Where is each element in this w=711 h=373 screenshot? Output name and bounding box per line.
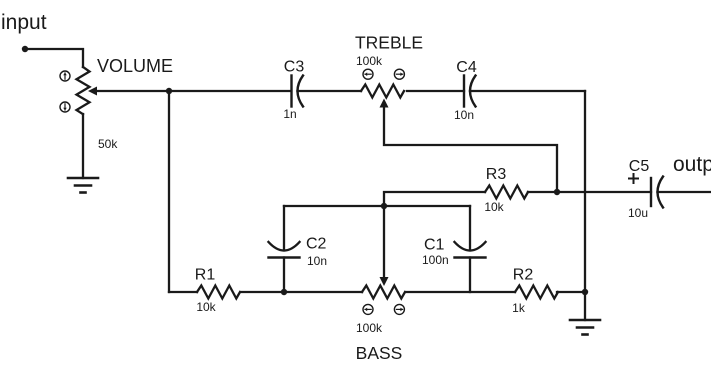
wire junction A to C3 bbox=[169, 90, 291, 92]
volume ccw rotation symbol (circled down arrow) bbox=[60, 102, 70, 112]
wire C2 top to C1 top through node C bbox=[284, 205, 470, 207]
svg-text:1k: 1k bbox=[512, 301, 526, 315]
wire treble wiper down and right to output node bbox=[384, 107, 557, 192]
svg-text:BASS: BASS bbox=[356, 343, 403, 363]
wire R1 to node D bbox=[241, 291, 284, 293]
capacitor C5 bbox=[651, 177, 663, 208]
svg-text:R3: R3 bbox=[486, 166, 507, 183]
bass ccw rotation symbol (circled left arrow) bbox=[363, 304, 373, 314]
ground (output side) bbox=[570, 320, 600, 335]
treble cw rotation symbol (circled right arrow) bbox=[394, 69, 404, 79]
wire C5 to output bbox=[658, 191, 711, 193]
wire treble pot to C4 bbox=[407, 90, 464, 92]
capacitor C3 bbox=[292, 76, 304, 107]
svg-text:input: input bbox=[1, 11, 47, 34]
node D: R1 / C2 junction dot bbox=[281, 289, 287, 295]
svg-text:50k: 50k bbox=[98, 137, 118, 151]
svg-text:VOLUME: VOLUME bbox=[97, 56, 173, 76]
volume cw rotation symbol (circled up arrow) bbox=[60, 71, 70, 81]
capacitor C1 bbox=[455, 242, 486, 258]
svg-text:C5: C5 bbox=[629, 158, 650, 175]
node A: volume wiper / C3 junction dot bbox=[166, 88, 172, 94]
wire R3 left lead bbox=[384, 192, 485, 206]
volume wiper arrow bbox=[88, 87, 97, 96]
treble ccw rotation symbol (circled left arrow) bbox=[363, 69, 373, 79]
svg-text:100k: 100k bbox=[356, 54, 383, 68]
svg-text:C3: C3 bbox=[284, 59, 305, 76]
wire C2 bottom lead bbox=[283, 258, 285, 293]
svg-text:10k: 10k bbox=[196, 300, 216, 314]
svg-text:C4: C4 bbox=[456, 59, 477, 76]
ground (volume) bbox=[68, 178, 98, 193]
capacitor C2 bbox=[269, 242, 300, 258]
capacitor C4 bbox=[464, 76, 476, 107]
treble wiper arrow bbox=[380, 99, 389, 108]
wire right vertical C4 to R2/ground (crosses output wire) bbox=[584, 91, 586, 292]
wire bass pot to R2 bbox=[406, 291, 515, 293]
potentiometer TREBLE 100k (horizontal zigzag) bbox=[361, 85, 404, 98]
wire input dot to corner bbox=[25, 49, 83, 67]
bass wiper arrow bbox=[380, 277, 389, 286]
wire C1 top lead bbox=[469, 206, 471, 250]
svg-text:C2: C2 bbox=[306, 236, 327, 253]
svg-text:10u: 10u bbox=[628, 206, 648, 220]
node B: R3 / treble wiper junction dot bbox=[554, 189, 560, 195]
resistor R1 bbox=[197, 286, 240, 299]
wire C4 to right vertical bbox=[470, 90, 585, 92]
wire node E to ground bbox=[584, 292, 586, 320]
wire bass wiper from node C down bbox=[383, 206, 385, 278]
potentiometer VOLUME 50k (vertical zigzag) bbox=[77, 67, 90, 114]
wire C1 bottom lead bbox=[469, 258, 471, 293]
svg-text:100k: 100k bbox=[356, 321, 383, 335]
node input: terminal dot bbox=[22, 46, 28, 52]
wire volume pot bottom to ground bbox=[82, 114, 84, 178]
wire bottom row left corner to R1 bbox=[169, 291, 197, 293]
svg-text:output: output bbox=[673, 153, 711, 176]
resistor R2 bbox=[515, 286, 558, 299]
svg-text:1n: 1n bbox=[283, 107, 296, 121]
wire C2 top lead bbox=[283, 206, 285, 250]
svg-text:10k: 10k bbox=[484, 200, 504, 214]
node C: bass wiper / C2 / R3 junction dot bbox=[381, 203, 387, 209]
wire node D to bass pot bbox=[284, 291, 362, 293]
svg-text:TREBLE: TREBLE bbox=[355, 33, 423, 53]
svg-text:C1: C1 bbox=[424, 237, 445, 254]
resistor R3 bbox=[485, 186, 528, 199]
svg-text:10n: 10n bbox=[454, 108, 474, 122]
node E: R2 / C4 / ground junction dot bbox=[582, 289, 588, 295]
svg-text:R1: R1 bbox=[195, 267, 216, 284]
C5 polarity plus sign bbox=[629, 174, 638, 183]
bass cw rotation symbol (circled right arrow) bbox=[394, 304, 404, 314]
svg-text:10n: 10n bbox=[307, 254, 327, 268]
wire R3 to C5 (output node) bbox=[528, 191, 651, 193]
wire R2 to node E bbox=[557, 291, 585, 293]
wire volume wiper to junction bbox=[96, 90, 169, 92]
wire junction A down to bottom row bbox=[168, 91, 170, 292]
svg-text:100n: 100n bbox=[422, 253, 449, 267]
wire C3 to treble pot bbox=[298, 90, 362, 92]
svg-text:R2: R2 bbox=[513, 267, 534, 284]
potentiometer BASS 100k (horizontal zigzag) bbox=[362, 286, 405, 299]
